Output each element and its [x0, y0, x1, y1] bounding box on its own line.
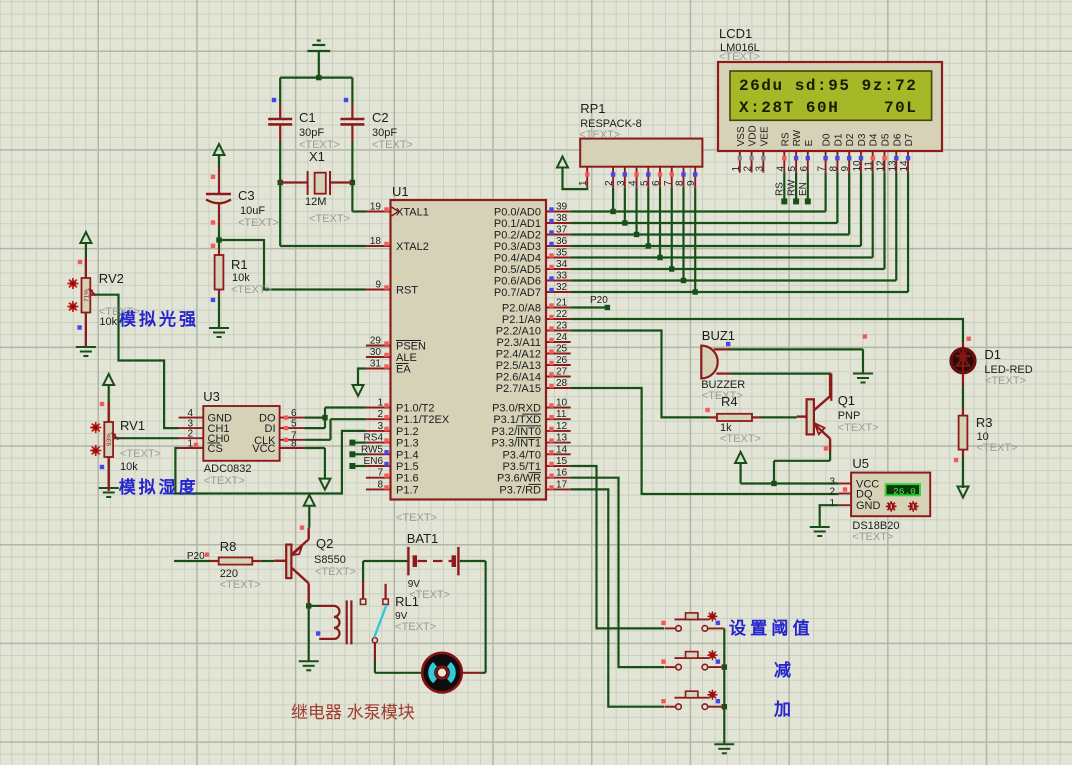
svg-text:BUZ1: BUZ1 [702, 328, 735, 343]
svg-text:RS: RS [775, 182, 786, 196]
svg-text:<TEXT>: <TEXT> [238, 217, 279, 229]
svg-text:P0.2/AD2: P0.2/AD2 [494, 230, 541, 242]
svg-text:R4: R4 [721, 394, 738, 409]
svg-text:4: 4 [775, 166, 786, 172]
svg-text:19: 19 [370, 202, 382, 213]
svg-text:10k: 10k [232, 272, 250, 284]
svg-text:2: 2 [604, 180, 615, 186]
svg-text:P3.7/RD: P3.7/RD [499, 484, 541, 496]
svg-text:15: 15 [556, 456, 568, 467]
svg-text:P0.1/AD1: P0.1/AD1 [494, 218, 541, 230]
svg-text:<TEXT>: <TEXT> [409, 589, 450, 601]
svg-text:P2.1/A9: P2.1/A9 [502, 314, 541, 326]
svg-text:14: 14 [556, 444, 568, 455]
svg-text:CS: CS [208, 443, 223, 455]
svg-text:P1.2: P1.2 [396, 426, 419, 438]
svg-text:<TEXT>: <TEXT> [985, 375, 1026, 387]
svg-text:RP1: RP1 [580, 101, 605, 116]
svg-text:29: 29 [370, 336, 382, 347]
svg-text:5: 5 [787, 166, 798, 172]
svg-text:2: 2 [743, 166, 754, 172]
svg-text:R3: R3 [976, 415, 993, 430]
svg-text:R8: R8 [220, 539, 237, 554]
svg-text:P3.4/T0: P3.4/T0 [502, 449, 541, 461]
svg-text:RV2: RV2 [99, 271, 124, 286]
svg-text:P2.2/A10: P2.2/A10 [496, 326, 541, 338]
svg-text:C3: C3 [238, 188, 255, 203]
svg-text:P1.4: P1.4 [396, 449, 419, 461]
svg-text:10k: 10k [99, 316, 117, 328]
svg-text:D4: D4 [869, 133, 880, 146]
svg-text:P1.6: P1.6 [396, 473, 419, 485]
svg-text:38: 38 [556, 213, 568, 224]
svg-text:4: 4 [628, 180, 639, 186]
svg-text:25: 25 [556, 344, 568, 355]
svg-text:26: 26 [556, 355, 568, 366]
svg-text:36: 36 [556, 236, 568, 247]
svg-text:U3: U3 [203, 389, 220, 404]
svg-text:32: 32 [556, 282, 568, 293]
svg-text:8: 8 [377, 479, 383, 490]
svg-text:9: 9 [840, 166, 851, 172]
svg-text:17: 17 [556, 479, 568, 490]
svg-text:2: 2 [377, 409, 383, 420]
svg-text:D6: D6 [892, 133, 903, 146]
svg-text:33: 33 [556, 271, 568, 282]
svg-text:<TEXT>: <TEXT> [315, 566, 356, 578]
svg-text:P2.5/A13: P2.5/A13 [496, 360, 541, 372]
svg-text:P2.3/A11: P2.3/A11 [497, 337, 541, 349]
svg-text:C2: C2 [372, 110, 389, 125]
svg-text:<TEXT>: <TEXT> [372, 139, 413, 151]
svg-text:P0.7/AD7: P0.7/AD7 [494, 287, 541, 299]
svg-text:3: 3 [616, 180, 627, 186]
svg-text:RW: RW [792, 129, 803, 146]
svg-text:13: 13 [887, 160, 898, 172]
svg-text:35: 35 [556, 248, 568, 259]
svg-text:RW: RW [786, 179, 797, 196]
svg-text:8: 8 [291, 439, 297, 450]
svg-text:<TEXT>: <TEXT> [120, 448, 161, 460]
svg-text:23: 23 [556, 321, 568, 332]
svg-text:ADC0832: ADC0832 [204, 463, 252, 475]
svg-text:11: 11 [864, 161, 875, 172]
svg-text:P0.6/AD6: P0.6/AD6 [494, 276, 541, 288]
svg-text:6: 6 [291, 408, 297, 419]
svg-text:VEE: VEE [759, 126, 770, 146]
svg-text:28: 28 [556, 378, 568, 389]
svg-text:D2: D2 [845, 133, 856, 146]
svg-text:<TEXT>: <TEXT> [220, 579, 261, 591]
svg-text:减: 减 [774, 660, 791, 680]
svg-text:22: 22 [556, 309, 568, 320]
svg-text:3: 3 [377, 421, 383, 432]
svg-text:30pF: 30pF [372, 127, 397, 139]
svg-text:XTAL2: XTAL2 [396, 241, 429, 253]
svg-text:7: 7 [817, 166, 828, 172]
svg-text:P2.0/A8: P2.0/A8 [502, 303, 541, 315]
svg-text:3: 3 [754, 166, 765, 172]
svg-text:5: 5 [291, 419, 297, 430]
svg-text:BAT1: BAT1 [407, 531, 439, 546]
svg-text:P3.1/TXD: P3.1/TXD [493, 414, 541, 426]
svg-text:P1.3: P1.3 [396, 438, 419, 450]
svg-text:R1: R1 [231, 257, 248, 272]
svg-text:P2.6/A14: P2.6/A14 [496, 372, 541, 384]
svg-text:D3: D3 [857, 133, 868, 146]
svg-text:13: 13 [556, 433, 568, 444]
svg-text:12: 12 [556, 421, 568, 432]
svg-text:U1: U1 [392, 184, 409, 199]
svg-text:P0.5/AD5: P0.5/AD5 [494, 264, 541, 276]
svg-text:DQ: DQ [856, 489, 873, 501]
svg-text:10: 10 [852, 160, 863, 172]
svg-text:<TEXT>: <TEXT> [309, 213, 350, 225]
svg-text:继电器 水泵模块: 继电器 水泵模块 [291, 703, 415, 722]
svg-text:P3.2/INT0: P3.2/INT0 [491, 426, 541, 438]
svg-text:<TEXT>: <TEXT> [231, 284, 272, 296]
svg-text:6: 6 [799, 166, 810, 172]
svg-text:C1: C1 [299, 110, 316, 125]
svg-text:4: 4 [187, 408, 193, 419]
svg-text:P0.3/AD3: P0.3/AD3 [494, 241, 541, 253]
svg-text:21: 21 [556, 298, 568, 309]
svg-text:14: 14 [899, 160, 910, 172]
svg-text:P2.7/A15: P2.7/A15 [496, 383, 541, 395]
svg-text:11: 11 [556, 409, 567, 420]
svg-text:X1: X1 [309, 149, 325, 164]
svg-text:RST: RST [396, 285, 418, 297]
svg-text:RW5: RW5 [361, 444, 383, 455]
svg-text:1: 1 [829, 498, 835, 509]
svg-text:37: 37 [556, 225, 568, 236]
svg-text:RS: RS [780, 132, 791, 146]
svg-text:D1: D1 [833, 133, 844, 146]
svg-text:10: 10 [556, 398, 568, 409]
svg-text:D0: D0 [822, 133, 833, 146]
svg-text:P1.0/T2: P1.0/T2 [396, 403, 435, 415]
svg-text:P20: P20 [187, 551, 205, 562]
svg-text:P1.1/T2EX: P1.1/T2EX [396, 414, 450, 426]
svg-text:RS4: RS4 [364, 433, 384, 444]
svg-text:EA: EA [396, 364, 411, 376]
svg-text:10k: 10k [120, 461, 138, 473]
svg-text:VCC: VCC [252, 443, 275, 455]
svg-text:加: 加 [773, 700, 791, 719]
svg-text:18: 18 [370, 236, 382, 247]
svg-text:S8550: S8550 [314, 554, 346, 566]
svg-text:<TEXT>: <TEXT> [204, 475, 245, 487]
svg-text:<TEXT>: <TEXT> [395, 621, 436, 633]
svg-text:E: E [804, 139, 815, 146]
svg-text:5: 5 [639, 180, 650, 186]
svg-text:31: 31 [370, 359, 382, 370]
svg-text:1: 1 [187, 439, 193, 450]
svg-text:7: 7 [377, 468, 383, 479]
svg-text:8: 8 [674, 180, 685, 186]
svg-text:26du sd:95 9z:72: 26du sd:95 9z:72 [739, 77, 917, 95]
svg-text:ALE: ALE [396, 352, 417, 364]
svg-text:VDD: VDD [748, 125, 759, 146]
svg-text:39: 39 [556, 202, 568, 213]
svg-text:30: 30 [370, 347, 382, 358]
svg-text:2: 2 [829, 487, 835, 498]
svg-text:30pF: 30pF [299, 127, 324, 139]
svg-text:<TEXT>: <TEXT> [719, 51, 760, 63]
svg-text:P0.4/AD4: P0.4/AD4 [494, 253, 541, 265]
svg-text:D5: D5 [881, 133, 892, 146]
svg-text:<TEXT>: <TEXT> [396, 512, 437, 524]
svg-text:D1: D1 [984, 347, 1001, 362]
svg-text:PSEN: PSEN [396, 341, 426, 353]
svg-text:1: 1 [578, 180, 589, 186]
svg-text:26.0: 26.0 [893, 486, 916, 497]
svg-text:GND: GND [856, 500, 881, 512]
svg-text:LCD1: LCD1 [719, 26, 752, 41]
svg-text:P3.6/WR: P3.6/WR [497, 473, 541, 485]
svg-text:6: 6 [651, 180, 662, 186]
svg-text:1: 1 [731, 166, 742, 172]
svg-text:1: 1 [377, 398, 383, 409]
svg-text:P1.7: P1.7 [396, 484, 419, 496]
svg-text:P2.4/A12: P2.4/A12 [496, 349, 541, 361]
svg-text:U5: U5 [852, 456, 869, 471]
svg-text:9: 9 [686, 180, 697, 186]
svg-text:Q2: Q2 [316, 536, 333, 551]
svg-text:16: 16 [556, 468, 568, 479]
svg-text:<TEXT>: <TEXT> [977, 442, 1018, 454]
svg-text:P20: P20 [590, 295, 608, 306]
svg-text:12: 12 [876, 160, 887, 172]
svg-text:8: 8 [828, 166, 839, 172]
svg-text:XTAL1: XTAL1 [396, 207, 429, 219]
svg-text:Q1: Q1 [838, 393, 855, 408]
svg-text:<TEXT>: <TEXT> [720, 433, 761, 445]
svg-text:P1.5: P1.5 [396, 461, 419, 473]
svg-text:9: 9 [375, 280, 381, 291]
svg-text:EN: EN [798, 182, 809, 196]
svg-text:P3.5/T1: P3.5/T1 [502, 461, 541, 473]
svg-text:P3.3/INT1: P3.3/INT1 [491, 438, 541, 450]
svg-text:<TEXT>: <TEXT> [852, 531, 893, 543]
svg-text:<TEXT>: <TEXT> [838, 422, 879, 434]
svg-text:VSS: VSS [736, 126, 747, 146]
svg-text:P0.0/AD0: P0.0/AD0 [494, 207, 541, 219]
svg-text:27: 27 [556, 367, 568, 378]
svg-text:设置阈值: 设置阈值 [729, 618, 814, 638]
svg-text:10uF: 10uF [240, 205, 265, 217]
svg-text:24: 24 [556, 332, 568, 343]
svg-text:P3.0/RXD: P3.0/RXD [492, 403, 541, 415]
svg-text:34: 34 [556, 259, 568, 270]
svg-text:12M: 12M [305, 196, 326, 208]
svg-text:PNP: PNP [838, 410, 861, 422]
svg-text:DI: DI [265, 423, 276, 435]
svg-text:<TEXT>: <TEXT> [579, 129, 620, 141]
svg-text:RV1: RV1 [120, 418, 145, 433]
svg-text:EN6: EN6 [364, 456, 384, 467]
svg-text:7: 7 [663, 180, 674, 186]
svg-text:模拟湿度: 模拟湿度 [119, 477, 199, 497]
svg-text:X:28T 60H 70L: X:28T 60H 70L [739, 99, 917, 117]
svg-text:D7: D7 [904, 133, 915, 146]
